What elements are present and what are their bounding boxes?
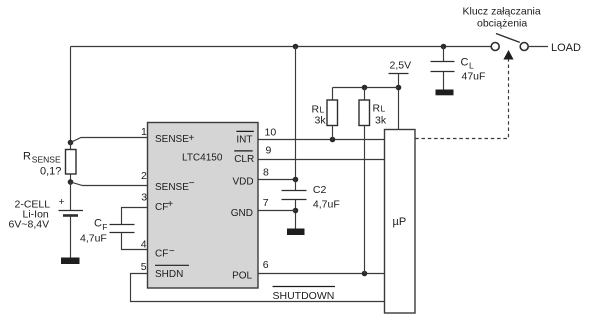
- svg-text:LOAD: LOAD: [551, 42, 581, 54]
- svg-text:3k: 3k: [315, 115, 327, 127]
- microprocessor U2 uP: [385, 130, 416, 314]
- svg-text:VDD: VDD: [233, 177, 254, 188]
- svg-text:4,7uF: 4,7uF: [80, 233, 107, 245]
- wire: pin2 SENSE- lead: [71, 182, 149, 186]
- svg-text:+: +: [59, 196, 65, 208]
- wire: VDD vertical drop from top rail: [295, 47, 297, 180]
- wire: dashed control line uP to switch: [415, 60, 508, 139]
- capacitor CF: [110, 208, 149, 250]
- pin 10 INT: [236, 126, 276, 145]
- svg-text:C: C: [461, 57, 469, 69]
- svg-text:Klucz załączania: Klucz załączania: [463, 6, 541, 18]
- ground: C2 ground bar: [287, 229, 305, 236]
- pin 8 VDD: [233, 167, 270, 188]
- svg-text:µP: µP: [393, 216, 407, 228]
- pin 7 GND: [231, 197, 269, 219]
- node: junction rail / RL2: [362, 85, 368, 91]
- svg-text:R: R: [23, 151, 31, 163]
- svg-text:SENSE: SENSE: [155, 134, 189, 145]
- svg-text:GND: GND: [231, 208, 253, 219]
- label CF: [94, 218, 107, 232]
- svg-text:6V~8,4V: 6V~8,4V: [9, 219, 50, 231]
- svg-text:3k: 3k: [375, 115, 387, 127]
- svg-text:5: 5: [141, 261, 147, 273]
- node: junction GND / C2: [293, 208, 299, 214]
- svg-text:SHDN: SHDN: [155, 269, 183, 280]
- wire: pin1 SENSE+ lead: [71, 138, 149, 143]
- capacitor C2: [282, 180, 307, 229]
- pin 1 SENSE+: [141, 126, 194, 145]
- switch S1: load switching key: [491, 34, 528, 51]
- node: junction RSENSE bottom / pin2: [68, 179, 74, 185]
- svg-text:+: +: [188, 133, 194, 144]
- node: CL tap junction on top rail: [441, 44, 447, 50]
- label RL1: [312, 104, 325, 116]
- pin 4 CF-: [141, 239, 175, 260]
- svg-text:2,5V: 2,5V: [390, 60, 412, 72]
- arrowhead on control line: [503, 50, 513, 60]
- svg-text:C: C: [94, 218, 102, 230]
- svg-text:obciążenia: obciążenia: [477, 18, 527, 30]
- svg-text:INT: INT: [236, 135, 252, 146]
- pin 3 CF+: [141, 192, 173, 213]
- wire: RSENSE top stub: [70, 143, 72, 150]
- svg-text:F: F: [102, 222, 107, 232]
- svg-text:R: R: [373, 103, 381, 115]
- svg-text:4,7uF: 4,7uF: [313, 199, 340, 211]
- svg-text:8: 8: [263, 167, 269, 179]
- wire: RSENSE bottom stub: [70, 174, 72, 182]
- resistor RL2: [359, 88, 370, 274]
- supply rail 2,5V: [389, 60, 412, 130]
- label battery 2-CELL Li-Ion 6V~8,4V: [9, 199, 51, 231]
- svg-text:CLR: CLR: [234, 154, 254, 165]
- wire: pin5 SHDN to uP bottom: [131, 274, 385, 302]
- wire: pin9 CLR line to uP: [258, 159, 385, 161]
- svg-text:L: L: [381, 104, 386, 114]
- svg-text:L: L: [469, 61, 474, 71]
- svg-text:−: −: [169, 246, 175, 257]
- svg-text:POL: POL: [232, 270, 252, 281]
- battery BT1 2-CELL Li-Ion: [59, 182, 84, 258]
- node: VDD tap junction on top rail: [293, 44, 299, 50]
- svg-text:SENSE: SENSE: [155, 182, 189, 193]
- pin 6 POL: [232, 259, 269, 282]
- label RL2: [373, 103, 386, 115]
- svg-text:SENSE: SENSE: [32, 154, 61, 164]
- svg-text:7: 7: [263, 197, 269, 209]
- capacitor CL: [431, 47, 455, 90]
- resistor RSENSE: [66, 150, 77, 175]
- svg-text:47uF: 47uF: [462, 71, 486, 83]
- svg-text:CF: CF: [155, 248, 168, 259]
- svg-text:SHUTDOWN: SHUTDOWN: [273, 290, 335, 302]
- wire: battery+ left vertical riser: [70, 47, 72, 143]
- svg-text:+: +: [167, 199, 173, 210]
- label SHUTDOWN with overline: [273, 287, 336, 302]
- wire: pin6 POL line to uP: [258, 273, 385, 275]
- svg-text:−: −: [189, 178, 195, 189]
- svg-text:LTC4150: LTC4150: [182, 152, 223, 163]
- wire: switch to LOAD: [528, 46, 548, 48]
- svg-text:C2: C2: [313, 184, 327, 196]
- node: junction RL2 / POL: [362, 271, 368, 277]
- svg-text:0,1?: 0,1?: [40, 166, 61, 178]
- svg-text:9: 9: [266, 145, 272, 157]
- svg-text:3: 3: [141, 192, 147, 204]
- svg-text:6: 6: [263, 259, 269, 271]
- node: junction RSENSE top / pin1: [68, 140, 74, 146]
- label Klucz zalaczania obciazenia: [463, 6, 541, 30]
- svg-text:1: 1: [141, 126, 147, 138]
- ground: CL ground bar: [436, 90, 454, 96]
- resistor RL1: [327, 88, 338, 140]
- svg-text:10: 10: [265, 126, 277, 138]
- label RSENSE: [23, 151, 61, 165]
- label CL: [461, 57, 475, 71]
- svg-text:4: 4: [141, 239, 147, 251]
- wire: pull-up rail to resistors: [333, 87, 399, 89]
- wire: top positive rail: [71, 46, 492, 48]
- pin 9 CLR: [234, 145, 271, 166]
- pin 5 SHDN: [141, 261, 189, 280]
- ground: battery ground bar: [61, 258, 80, 265]
- svg-text:2: 2: [141, 170, 147, 182]
- node: junction 2,5V / pull-up rail: [396, 85, 402, 91]
- svg-text:L: L: [320, 105, 325, 115]
- wire: pin8 VDD lead: [258, 179, 296, 181]
- wire: pin10 INT line to uP: [258, 139, 385, 141]
- pin 2 SENSE-: [141, 170, 195, 193]
- node: junction VDD / C2: [293, 177, 299, 183]
- node: junction RL1 / INT: [330, 137, 336, 143]
- op-amp U1 LTC4150 IC body: [148, 123, 259, 289]
- wire: pin7 GND lead: [258, 210, 296, 212]
